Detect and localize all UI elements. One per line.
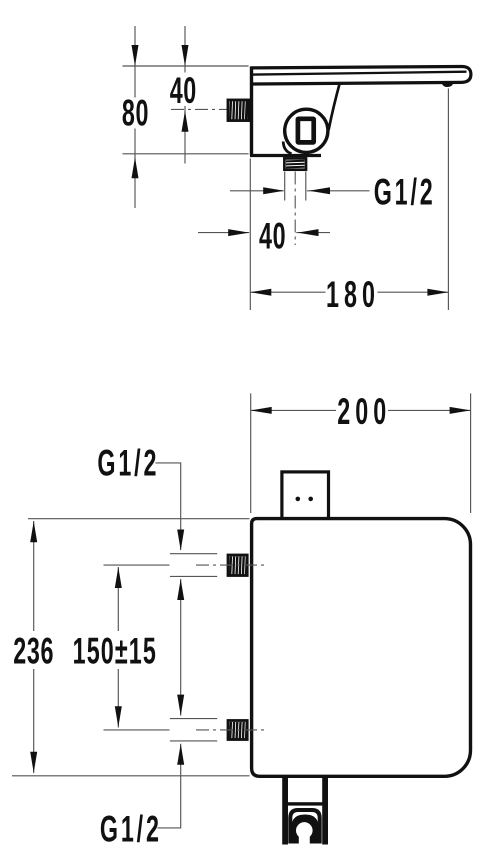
extension line: body right for 200 xyxy=(470,393,472,513)
dim 236: lower line and arrow xyxy=(30,669,37,773)
shower holder clamp ring with bottom opening xyxy=(292,815,319,844)
dim 40 horizontal: left arrow xyxy=(198,229,249,236)
svg-text:80: 80 xyxy=(122,92,149,134)
handle knob rectangle xyxy=(298,119,314,143)
leader from lower G1/2 label xyxy=(158,744,185,828)
faucet body bottom edge xyxy=(250,154,321,157)
threaded inlet nipple (left, G1/2) xyxy=(228,100,249,121)
centerline: inlet nipple (dash-dot) xyxy=(171,108,227,110)
dim 80: upper line and arrow xyxy=(132,26,139,98)
shower holder left bar xyxy=(282,776,288,845)
lower side nipple G1/2 xyxy=(228,721,247,740)
centerline: lower nipple dash-dot part xyxy=(196,729,264,731)
centerline: outlet (dash-dot vertical) xyxy=(294,172,296,246)
svg-text:150±15: 150±15 xyxy=(73,630,157,672)
shower holder arch xyxy=(290,810,319,844)
extension line: spout end for 180 xyxy=(447,89,449,311)
centerline: upper nipple solid part xyxy=(104,564,170,566)
leader from upper G1/2 label xyxy=(156,463,185,551)
extension line: outlet left edge xyxy=(284,172,286,201)
shower holder right bar xyxy=(322,776,328,845)
dim 40 vertical: upper line and arrow xyxy=(182,26,189,73)
svg-text:40: 40 xyxy=(170,69,197,111)
mixer body outline xyxy=(252,519,471,777)
handle escutcheon arc xyxy=(283,142,291,154)
extension line: lower nipple top edge xyxy=(170,718,217,720)
svg-text:G1/2: G1/2 xyxy=(97,442,159,484)
dim G1/2: left arrow xyxy=(230,187,284,194)
extension line: body bottom level xyxy=(12,775,250,777)
svg-text:236: 236 xyxy=(13,630,54,672)
svg-text:G1/2: G1/2 xyxy=(100,808,162,850)
svg-text:G1/2: G1/2 xyxy=(374,171,436,213)
svg-text:200: 200 xyxy=(337,390,391,432)
dim 150±15: lower line and arrow xyxy=(115,669,122,728)
extension line: lower nipple bottom edge xyxy=(170,740,217,742)
extension line: body left for 200 xyxy=(250,393,252,513)
centerline: lower nipple solid part xyxy=(104,729,170,731)
extension line: upper nipple top edge xyxy=(170,553,217,555)
shower holder crossbar xyxy=(287,802,323,805)
dim 40 horizontal: right arrow xyxy=(296,229,330,236)
extension line: upper nipple bottom edge xyxy=(170,575,217,577)
spout middle line xyxy=(252,72,467,75)
extension line: outlet right edge xyxy=(305,172,307,201)
dim 236: upper line and arrow xyxy=(30,521,37,631)
dim 180: line right segment with arrow xyxy=(378,289,449,296)
leader between nipples with two arrows xyxy=(177,579,184,716)
dim 150±15: upper line and arrow xyxy=(115,567,122,631)
svg-text:40: 40 xyxy=(259,215,286,257)
extension line: body left for 180 xyxy=(249,159,251,311)
handle circle xyxy=(285,109,328,152)
centerline: upper nipple dash-dot part xyxy=(196,564,264,566)
spout bar (top) xyxy=(252,66,471,84)
aerator bump under spout end xyxy=(442,83,453,87)
top protrusion box xyxy=(282,472,329,520)
extension line: body bottom level xyxy=(123,153,249,155)
upper side nipple G1/2 xyxy=(228,555,247,576)
dim 200: line right segment with arrow xyxy=(388,407,471,414)
dim 200: line left segment with arrow xyxy=(251,407,336,414)
dim 40 vertical: lower line and arrow xyxy=(182,106,189,164)
dim G1/2: right arrow with leader to label xyxy=(307,187,370,194)
dim 80: lower line and arrow xyxy=(132,129,139,209)
handle diagonal lever line xyxy=(329,83,340,130)
protrusion dot right xyxy=(308,497,313,502)
protrusion dot left xyxy=(296,497,301,502)
svg-text:180: 180 xyxy=(326,273,380,315)
threaded outlet (bottom, G1/2) xyxy=(284,158,306,169)
extension line: spout top level xyxy=(123,65,249,67)
extension line: body top level xyxy=(28,518,250,520)
dim 180: line left segment with arrow xyxy=(250,289,325,296)
faucet body left edge xyxy=(250,66,253,155)
